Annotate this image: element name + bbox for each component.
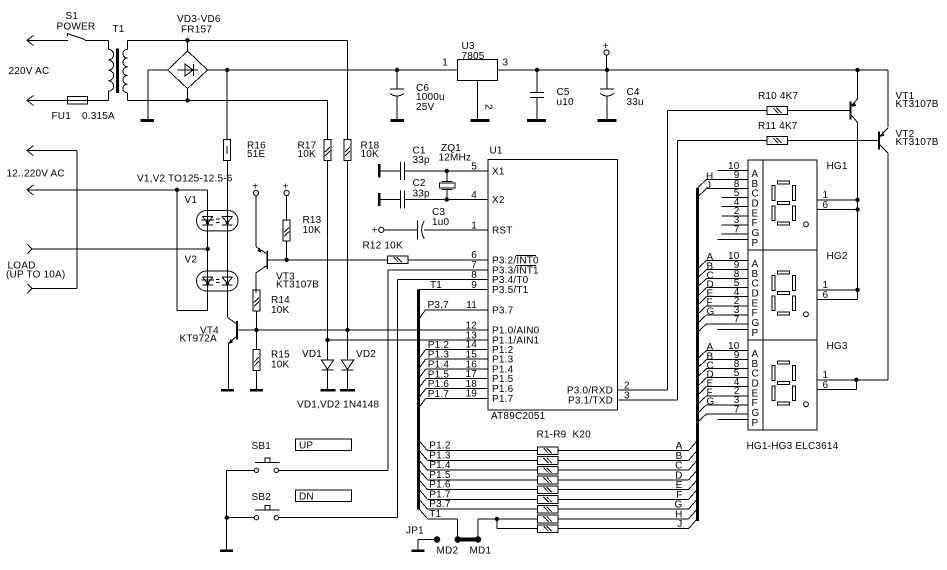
pin 1 of HG1 <box>817 190 858 201</box>
resistor R14 10K <box>253 290 260 330</box>
capacitor C3 1u0 <box>384 221 488 240</box>
bus entry F to HG3 <box>698 388 713 405</box>
svg-text:6: 6 <box>823 380 829 391</box>
svg-text:VD3-VD6: VD3-VD6 <box>177 14 221 25</box>
pin 5 stub of HG1 <box>722 188 749 199</box>
svg-text:HG1: HG1 <box>827 161 848 172</box>
svg-text:(UP TO 10A): (UP TO 10A) <box>6 270 65 281</box>
svg-text:VD1,VD2 1N4148: VD1,VD2 1N4148 <box>297 399 380 410</box>
svg-text:P3.1/TXD: P3.1/TXD <box>568 396 613 407</box>
svg-text:P: P <box>752 418 759 429</box>
svg-text:DN: DN <box>299 491 314 502</box>
wire: return loop from V2 bottom <box>177 190 208 311</box>
resistor R18 10K <box>344 140 351 161</box>
transistor VT3 KT3107B <box>256 196 268 293</box>
pin 14 P1.2 of U1 <box>465 340 513 356</box>
pin 4 stub of HG1 <box>722 197 749 208</box>
pin 5 stub of HG3 <box>707 368 749 379</box>
pin 3 P3.1/TXD of U1 <box>568 390 630 406</box>
pin 11 P3.7 of U1 <box>466 300 513 316</box>
svg-text:HG1-HG3 ELC3614: HG1-HG3 ELC3614 <box>747 441 839 452</box>
pushbutton SB2 <box>227 506 280 520</box>
wire: 12..220V AC upper terminal to common <box>27 146 77 289</box>
wire: VT1 collector to HG1 HG2 common pins <box>857 123 859 300</box>
svg-text:U1: U1 <box>490 146 503 157</box>
svg-text:AT89C2051: AT89C2051 <box>491 411 546 422</box>
resistor R16 51E <box>224 70 231 161</box>
junction: C6 tap on raw rail <box>395 68 399 72</box>
pin 2 stub of HG2 <box>707 296 749 307</box>
junction: C5 tap on 5V rail <box>535 68 539 72</box>
svg-text:RST: RST <box>492 226 513 237</box>
bus entry E to HG2 <box>698 289 714 306</box>
pin 2 P3.0/RXD of U1 <box>567 380 630 396</box>
7-segment display HG3 ELC3514 <box>748 340 817 430</box>
svg-text:33p: 33p <box>413 155 431 166</box>
switch S1 (POWER) <box>67 34 108 41</box>
wire: X1 net <box>405 170 489 172</box>
pin 1 of HG2 <box>817 280 858 291</box>
bus entry E to HG3 <box>698 379 714 396</box>
svg-text:FR157: FR157 <box>181 25 212 36</box>
crystal ZQ1 12MHz <box>439 171 455 200</box>
junction: VT4 base node <box>254 328 258 332</box>
svg-text:33u: 33u <box>627 97 644 108</box>
bus entry D to HG2 <box>698 279 714 296</box>
bus entry C to HG3 <box>698 360 714 377</box>
resistor R2 row P1.3 to B <box>419 451 697 465</box>
wire: P3.1/TXD to R11 <box>618 141 678 401</box>
svg-text:G: G <box>707 397 715 408</box>
pin 17 P1.5 of U1 <box>465 369 513 385</box>
jumper pad MD1 <box>475 536 481 542</box>
ground symbol at U3 pin 2 <box>471 119 490 122</box>
diode VD1 1N4148 <box>321 340 333 389</box>
wire: SB1 to P3.3/INT1 <box>279 270 489 471</box>
resistor R1 row P1.2 to A <box>419 441 697 455</box>
capacitor C2 33p <box>378 191 405 209</box>
pin 6 of HG2 <box>817 290 858 301</box>
svg-text:SB2: SB2 <box>252 492 272 503</box>
svg-text:10K: 10K <box>298 149 317 160</box>
wire: P1.1/AIN1 net <box>327 339 488 341</box>
jumper pad MD2 <box>455 536 461 542</box>
7-segment display HG2 ELC3514 <box>748 250 817 340</box>
svg-text:VD2: VD2 <box>356 349 376 360</box>
wire: P1.5 stub to bus <box>419 379 488 388</box>
svg-text:33p: 33p <box>413 188 431 199</box>
junction: VD2 anode on P1.0 net <box>345 328 349 332</box>
jumper shunt between MD2 and MD1 <box>456 538 480 542</box>
svg-text:UP: UP <box>299 440 313 451</box>
wire: P3.7 stub to bus <box>419 310 488 319</box>
bus entry A to HG3 <box>698 342 714 359</box>
junction: bridge top node <box>185 38 189 42</box>
svg-text:KT972A: KT972A <box>180 333 217 344</box>
pin 16 P1.4 of U1 <box>465 359 513 375</box>
resistor R17 10K <box>324 140 331 161</box>
pin 4 stub of HG2 <box>707 287 749 298</box>
wire: bridge negative output to ground <box>148 70 168 119</box>
svg-text:12MHz: 12MHz <box>439 152 472 163</box>
diode VD2 1N4148 <box>341 330 353 389</box>
wire: 220V AC neutral input with arrow terminal <box>27 96 67 106</box>
junction: row H to row J link <box>495 517 499 529</box>
label UP box <box>295 439 351 451</box>
svg-text:HG3: HG3 <box>827 341 848 352</box>
IC U1 AT89C2051 <box>488 160 618 411</box>
bus entry H to HG1 pin 9 <box>698 171 714 188</box>
wire: secondary bottom to bridge and R17 branch <box>127 100 327 139</box>
wire: X2 net <box>405 199 489 201</box>
bus: segment bus vertical <box>696 188 699 521</box>
bridge rectifier VD3-VD6 FR157 <box>168 40 208 100</box>
pin 10 stub of HG1 <box>718 161 749 172</box>
ground symbol at VD1 <box>320 389 335 392</box>
pin 13 P1.1/AIN1 of U1 <box>465 330 539 346</box>
svg-text:X2: X2 <box>492 195 505 206</box>
junction: V1 cathode V2 anode midpoint <box>205 247 209 251</box>
capacitor C5 u10 <box>530 70 544 119</box>
svg-text:T1: T1 <box>430 280 442 291</box>
svg-text:KT3107B: KT3107B <box>896 137 939 148</box>
resistor R8 row T1/H <box>419 509 697 536</box>
svg-text:KT3107B: KT3107B <box>896 99 939 110</box>
junction: X1 crystal node <box>445 169 449 173</box>
capacitor C6 1000u 25V <box>390 70 404 119</box>
svg-text:P3.7: P3.7 <box>492 305 514 316</box>
ground symbol at VD2 <box>340 389 355 392</box>
pin 6 of HG1 <box>817 200 858 211</box>
svg-text:P: P <box>752 238 759 249</box>
wire: P1.7 stub to bus <box>419 398 488 407</box>
bus entry D to HG3 <box>698 369 714 386</box>
svg-text:V1,V2 TO125-12.5-6: V1,V2 TO125-12.5-6 <box>137 173 233 184</box>
bus entry B to HG3 <box>698 351 714 368</box>
svg-text:P3.7: P3.7 <box>428 300 450 311</box>
ground symbol at VT4 emitter <box>221 389 234 392</box>
pin 2 stub of HG3 <box>707 386 749 397</box>
bus entry C to HG2 <box>698 270 714 287</box>
pin 6 of HG3 <box>817 380 856 391</box>
capacitor C1 33p <box>378 162 405 180</box>
wire: 12..220V AC lower terminal to V1 anode <box>27 185 208 211</box>
junction: R16 tap on raw rail <box>225 68 229 72</box>
pin 10 stub of HG3 <box>707 341 749 352</box>
ground symbol at SB1 SB2 <box>220 549 233 552</box>
svg-text:10K: 10K <box>303 225 322 236</box>
capacitor C4 33u <box>600 70 614 119</box>
pin 7 stub of HG3 <box>707 404 749 415</box>
resistor R11 4K7 <box>678 137 879 145</box>
svg-text:25V: 25V <box>416 102 435 113</box>
svg-text:G: G <box>707 307 715 318</box>
svg-text:R1-R9: R1-R9 <box>537 429 567 440</box>
fuse FU1 <box>67 97 108 104</box>
svg-text:R11 4K7: R11 4K7 <box>758 121 798 132</box>
pin P stub of HG3 <box>718 418 749 420</box>
pin 5 X1 of U1 <box>471 161 505 177</box>
wire: LOAD upper terminal to V1 V2 midpoint <box>27 244 207 253</box>
svg-text:1u0: 1u0 <box>432 217 450 228</box>
svg-text:POWER: POWER <box>57 21 96 32</box>
transformer T1 secondary winding <box>123 40 127 100</box>
bus entry F to HG2 <box>698 298 713 315</box>
svg-text:T1: T1 <box>429 509 441 520</box>
svg-text:7805: 7805 <box>462 51 485 62</box>
pin 19 P1.7 of U1 <box>465 389 513 405</box>
pin 3 stub of HG2 <box>707 305 749 316</box>
terminal +5V at VT3 emitter <box>252 181 258 195</box>
junction: SB common ground node <box>225 516 229 520</box>
transformer T1 core <box>116 49 119 94</box>
pin P stub of HG2 <box>718 328 749 330</box>
svg-text:J: J <box>677 519 682 530</box>
svg-text:P1.7: P1.7 <box>492 394 514 405</box>
junction: bridge bottom node <box>185 98 189 102</box>
bus entry J to HG1 pin 8 <box>698 181 712 198</box>
resistor R9 row J <box>497 519 697 533</box>
svg-text:220V AC: 220V AC <box>9 66 50 77</box>
wire: P1.6 stub to bus <box>419 389 488 398</box>
pin 7 stub of HG1 <box>722 224 749 235</box>
svg-text:3: 3 <box>503 58 509 69</box>
svg-text:10K: 10K <box>271 305 290 316</box>
resistor R13 10K <box>283 196 290 260</box>
ground symbol at C6 <box>390 119 404 122</box>
svg-text:V1: V1 <box>185 195 198 206</box>
pin 12 P1.0/AIN0 of U1 <box>465 320 539 336</box>
resistor R10 4K7 <box>668 107 850 115</box>
ground symbol at C5 <box>527 119 546 122</box>
resistor R5 row P1.6 to E <box>419 480 697 494</box>
svg-text:S1: S1 <box>66 11 79 22</box>
pin 9 stub of HG1 <box>707 170 749 181</box>
junction: HG1 pin 1 to VT1 collector <box>855 198 859 202</box>
wire: SB common to ground <box>226 518 228 550</box>
resistor R6 row P1.7 to F <box>419 490 697 504</box>
pin 9 P3.5/T1 of U1 <box>471 280 528 296</box>
svg-text:KT3107B: KT3107B <box>276 280 319 291</box>
svg-text:6: 6 <box>823 200 829 211</box>
pin 18 P1.6 of U1 <box>465 379 513 395</box>
transistor VT4 KT972A <box>227 317 256 389</box>
junction: X2 crystal node <box>445 197 449 201</box>
svg-text:12..220V AC: 12..220V AC <box>7 169 65 180</box>
svg-text:6: 6 <box>823 290 829 301</box>
resistor R12 10K <box>387 256 488 264</box>
pushbutton SB1 <box>227 458 280 518</box>
voltage regulator U3 7805 <box>458 60 498 81</box>
svg-text:51E: 51E <box>247 149 266 160</box>
svg-text:7: 7 <box>734 404 740 415</box>
wire: R17 to VD1 node <box>326 161 328 341</box>
junction: VT1 emitter tap on 5V rail <box>855 68 859 72</box>
pin 15 P1.3 of U1 <box>465 350 513 366</box>
svg-text:SB1: SB1 <box>252 441 272 452</box>
pin 5 stub of HG2 <box>707 278 749 289</box>
pin 8 P3.4/T0 of U1 <box>471 270 528 286</box>
terminal + for RST <box>372 225 384 236</box>
junction: R13 to VT3 base <box>284 258 288 262</box>
wire: VT2 collector to HG3 common pins <box>856 153 888 390</box>
pin 8 stub of HG2 <box>707 269 749 280</box>
svg-text:HG2: HG2 <box>827 251 848 262</box>
7-segment display HG1 ELC3514 <box>748 160 817 250</box>
pin 3 stub of HG1 <box>722 215 749 226</box>
svg-text:FU1: FU1 <box>52 111 72 122</box>
pin 9 stub of HG2 <box>707 260 749 271</box>
svg-text:X1: X1 <box>492 167 505 178</box>
wire: P1.0/AIN0 net to VT4 base <box>257 329 489 331</box>
terminal +5V at R13 <box>283 181 289 195</box>
wire: VT3 base node to R12 and P3.2 <box>268 259 387 261</box>
pin 4 stub of HG3 <box>707 377 749 388</box>
svg-text:R10 4K7: R10 4K7 <box>758 91 799 102</box>
wire: SB2 to P3.4/T0 <box>279 280 489 518</box>
svg-text:2: 2 <box>483 104 494 110</box>
ground symbol at C4 <box>598 119 617 122</box>
svg-text:R12 10K: R12 10K <box>363 241 403 252</box>
pin 2 stub of HG1 <box>722 206 749 217</box>
pin 9 stub of HG3 <box>707 350 749 361</box>
svg-text:10K: 10K <box>361 149 380 160</box>
junction: HG1 pin 6 to VT1 collector <box>855 207 859 211</box>
bus entry B to HG2 <box>698 261 714 278</box>
transistor VT2 KT3107B <box>878 128 888 153</box>
ground symbol at R15 <box>250 389 263 392</box>
svg-text:7: 7 <box>734 224 740 235</box>
svg-text:1: 1 <box>442 58 448 69</box>
pin 1 RST of U1 <box>471 220 512 236</box>
svg-text:MD1: MD1 <box>470 546 492 557</box>
wire: unregulated DC rail from bridge to U3 pin 1 <box>208 69 458 71</box>
junction: HG3 pin 1 to VT2 collector <box>854 378 858 382</box>
svg-text:7: 7 <box>734 314 740 325</box>
svg-text:J: J <box>706 181 711 192</box>
resistor R4 row P1.5 to D <box>419 470 697 484</box>
wire: P3.0/RXD to R10 <box>618 111 668 391</box>
bus entry to HG3 pin 7 <box>698 414 707 423</box>
resistor R7 row P3.7 to G <box>419 500 697 514</box>
pin 1 of HG3 <box>817 370 856 381</box>
svg-text:T1: T1 <box>113 24 125 35</box>
wire: P1.2 stub to bus <box>419 349 488 358</box>
terminal +5V test point at C4 <box>603 41 609 70</box>
svg-text:10K: 10K <box>271 360 290 371</box>
pin 3 stub of HG3 <box>707 395 749 406</box>
svg-text:u10: u10 <box>557 97 575 108</box>
resistor R3 row P1.4 to C <box>419 461 697 475</box>
wire: R18 to VD2 node <box>347 161 349 331</box>
svg-text:P: P <box>752 328 759 339</box>
label DN box <box>295 490 351 502</box>
wire: P1.4 stub to bus <box>419 369 488 378</box>
wire: secondary top to bridge and R18 branch <box>127 40 347 139</box>
svg-text:P1.7: P1.7 <box>428 389 450 400</box>
pin P stub of HG1 <box>718 238 749 240</box>
junction: mains net to return loop <box>175 188 179 192</box>
bus: port bus P1/T1 vertical <box>417 290 420 510</box>
svg-text:MD2: MD2 <box>437 546 459 557</box>
wire: +5V rail from U3 pin 3 to VT1 VT2 emitters <box>498 70 889 127</box>
svg-text:K20: K20 <box>573 429 592 440</box>
svg-text:0.315A: 0.315A <box>82 111 115 122</box>
pin 4 X2 of U1 <box>471 190 505 206</box>
svg-text:JP1: JP1 <box>406 526 424 537</box>
wire: LOAD lower terminal to common <box>27 284 77 293</box>
pin 8 stub of HG3 <box>707 359 749 370</box>
bus entry G to HG3 <box>698 397 715 414</box>
optothyristor V1 TO125-12.5-6 <box>197 161 239 250</box>
wire: P1.3 stub to bus <box>419 359 488 368</box>
bus entry A to HG2 <box>698 252 714 269</box>
ground symbol at bridge negative <box>140 119 154 122</box>
svg-text:VD1: VD1 <box>302 349 322 360</box>
pin 7 P3.3/INT1 of U1 <box>471 260 539 276</box>
resistor R15 10K <box>253 330 260 389</box>
pin 2 of U3 to ground <box>478 81 494 120</box>
pin 10 stub of HG2 <box>707 251 749 262</box>
svg-text:V2: V2 <box>185 254 198 265</box>
transformer T1 primary winding <box>108 40 113 100</box>
svg-text:P3.5/T1: P3.5/T1 <box>492 285 529 296</box>
junction: VD1 R17 node on P1.1 net <box>325 338 329 342</box>
junction: HG2 pin 1 to VT1 collector <box>855 288 859 292</box>
wire: 220V AC live input with arrow terminal <box>27 36 68 46</box>
pin 7 stub of HG2 <box>707 314 749 325</box>
junction: C4 tap on 5V rail <box>605 68 609 72</box>
jumper JP1 pad to ground <box>418 536 440 549</box>
pin 6 P3.2/INT0 of U1 <box>471 250 539 266</box>
wire: P3.5/T1 to bus <box>419 289 488 291</box>
bus entry G to HG2 <box>698 307 715 324</box>
svg-text:+: + <box>372 225 378 236</box>
bus entry to HG2 pin 7 <box>698 324 707 333</box>
pin 8 stub of HG1 <box>707 179 749 190</box>
optothyristor V2 TO125-12.5-6 <box>197 231 239 317</box>
transistor VT1 KT3107B <box>850 70 858 123</box>
ground symbol at JP1 <box>412 549 425 552</box>
